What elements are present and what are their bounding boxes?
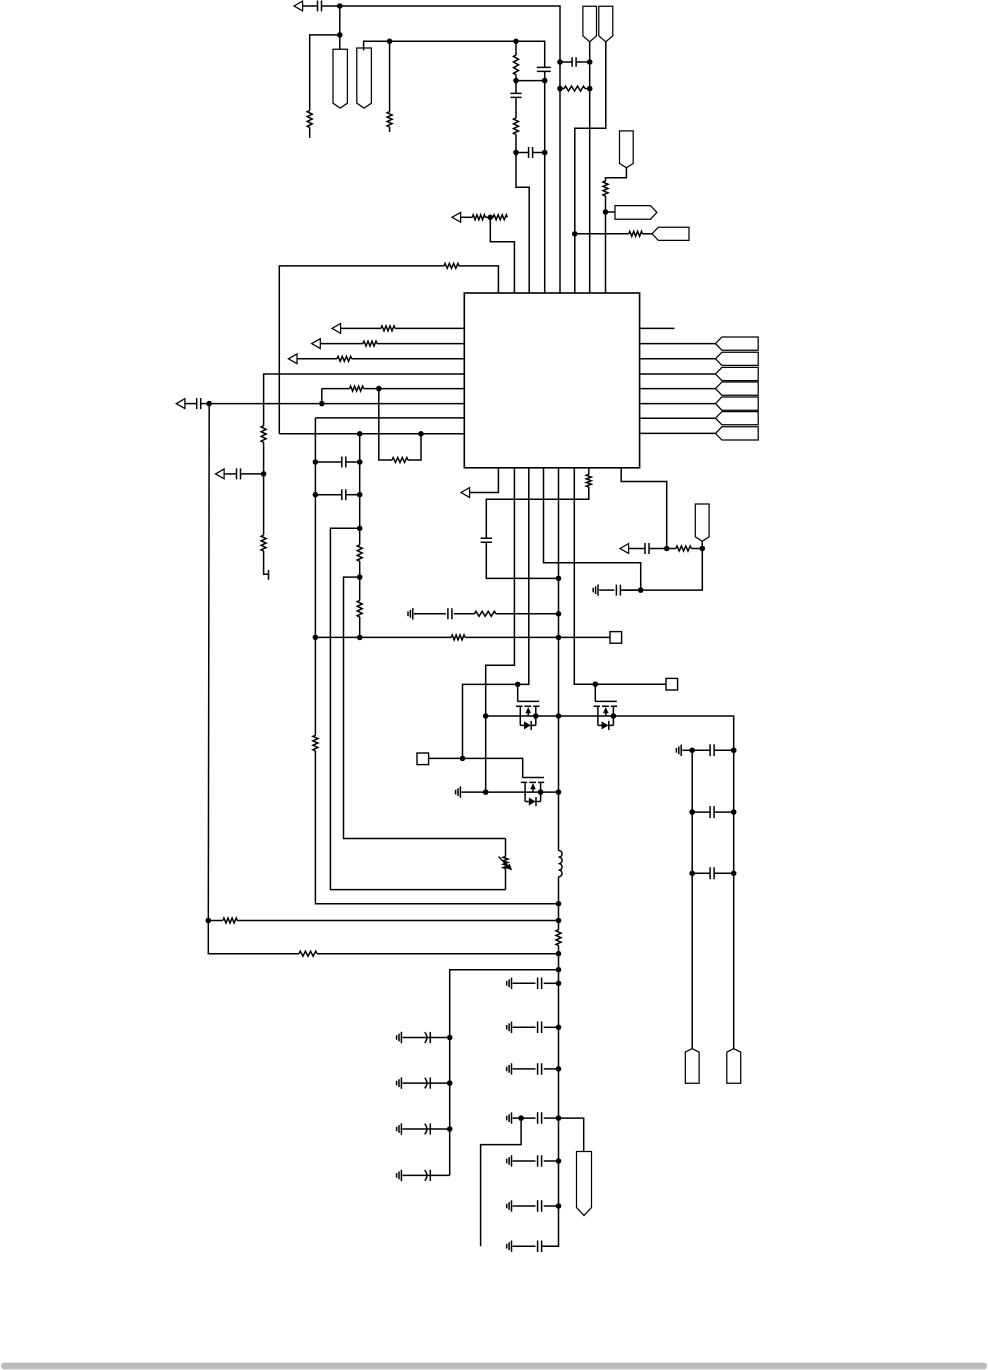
wire [599, 589, 614, 591]
wire [606, 168, 627, 181]
wire [516, 80, 545, 82]
junction [447, 1126, 453, 1132]
capacitor C14 [710, 744, 714, 756]
wire [339, 6, 341, 49]
wire [496, 613, 559, 615]
wire [544, 468, 641, 590]
wire [465, 636, 610, 638]
wire [486, 542, 558, 578]
net tag N4 [599, 6, 613, 42]
junction [556, 901, 562, 907]
net-input arrow P3 [312, 339, 321, 349]
wire [515, 97, 517, 118]
wire [309, 128, 311, 138]
transistor Q3 [521, 778, 544, 807]
wire [575, 42, 606, 293]
resistor R21 [556, 930, 561, 946]
junction [313, 459, 319, 465]
wire [330, 528, 505, 889]
wire [389, 127, 391, 132]
wire [430, 1082, 449, 1084]
resistor R13 [350, 386, 364, 391]
wire [516, 135, 529, 294]
wire [315, 636, 451, 638]
resistor R1 [307, 111, 312, 128]
wire [640, 343, 716, 345]
wire [297, 358, 337, 360]
wire [544, 1245, 559, 1247]
wire [629, 548, 646, 550]
wire [544, 72, 546, 81]
resistor R16 [444, 263, 459, 268]
wire [621, 549, 703, 591]
junction [447, 1080, 453, 1086]
wire [237, 920, 558, 922]
resistor R2 [387, 112, 392, 127]
resistor R25 [299, 951, 317, 956]
wire [314, 637, 316, 735]
junction [587, 86, 593, 92]
wire [691, 750, 693, 1048]
wire [640, 432, 716, 434]
net tag N1 [333, 49, 347, 108]
ground [507, 978, 512, 989]
capacitor C8 [342, 457, 346, 468]
resistor R4 [514, 118, 519, 135]
wire [344, 577, 506, 838]
net tag N8 [695, 504, 709, 541]
resistor R6 [629, 231, 643, 236]
resistor R12 [261, 535, 266, 551]
junction [731, 748, 737, 754]
wire [605, 196, 607, 293]
net tag NR5 [716, 397, 759, 410]
wire [606, 211, 616, 213]
wire [429, 758, 523, 777]
wire [389, 41, 391, 111]
resistor R19 [451, 635, 465, 640]
wire [390, 40, 516, 42]
capacitor C15 [710, 806, 714, 818]
capacitor C9 [342, 489, 346, 500]
junction [206, 918, 212, 924]
wire [364, 388, 465, 390]
wire [403, 1082, 431, 1084]
junction [556, 789, 562, 795]
wire [682, 749, 692, 751]
wire [490, 216, 493, 218]
wire [588, 468, 590, 475]
junction [593, 681, 599, 687]
junction [542, 150, 548, 156]
capacitor C10 [448, 608, 452, 619]
wire [513, 1117, 536, 1119]
junction [731, 748, 737, 754]
junction [447, 1035, 453, 1041]
wire [544, 81, 546, 293]
net-input arrow P5 [216, 469, 225, 479]
IC U1 [464, 293, 639, 468]
wire [559, 1118, 584, 1151]
junction [689, 871, 695, 877]
wire [640, 327, 675, 329]
junction [689, 748, 695, 754]
wire [359, 561, 361, 600]
wire [544, 1160, 559, 1162]
capacitor C24 [538, 1112, 542, 1124]
wire [621, 468, 667, 549]
resistor R18 [357, 600, 362, 617]
wire [322, 5, 340, 7]
net tag NR1 [716, 337, 759, 350]
wire [459, 266, 498, 293]
resistor R22 [586, 474, 591, 487]
wire [516, 152, 529, 154]
junction [731, 809, 737, 815]
wire [359, 617, 361, 638]
resistor R24 [223, 918, 237, 923]
capacitor C3 [529, 147, 533, 158]
junction [357, 459, 363, 465]
wire [321, 389, 323, 404]
ground [507, 1022, 512, 1033]
wire [486, 487, 589, 538]
junction [483, 713, 489, 719]
wire [585, 88, 590, 90]
transistor Q2 [594, 701, 617, 730]
wire [574, 468, 666, 684]
junction [313, 635, 319, 641]
capacitor C19 [425, 1123, 431, 1134]
wire [533, 152, 545, 154]
wire [692, 872, 710, 874]
wire [341, 327, 381, 329]
junction [587, 59, 593, 65]
wire [185, 403, 197, 405]
capacitor C21 [538, 978, 542, 990]
junction [357, 526, 363, 532]
wire [461, 216, 473, 218]
junction [700, 546, 706, 552]
net-input arrow P8 [620, 544, 629, 554]
wire [359, 434, 361, 545]
junction [556, 576, 562, 582]
wire [379, 389, 392, 460]
wire [714, 749, 734, 751]
ground [507, 1063, 512, 1074]
test point TP2 [666, 678, 678, 690]
wire [513, 1068, 536, 1070]
wire [430, 1174, 449, 1176]
resistor R23 [676, 546, 691, 551]
wire [505, 869, 507, 890]
wire [544, 1026, 559, 1028]
capacitor C2 [510, 93, 521, 97]
wire [643, 233, 653, 235]
junction [556, 1203, 562, 1209]
net tag NR6 [716, 412, 759, 425]
capacitor C5 [572, 57, 576, 67]
resistor R5 [564, 86, 585, 91]
ground [593, 584, 598, 595]
wire [263, 442, 265, 474]
net tag N10 [727, 1049, 741, 1084]
junction [556, 1025, 562, 1031]
wire [513, 982, 536, 984]
wire [208, 920, 223, 922]
wire [303, 5, 318, 7]
junction [206, 401, 212, 407]
ground [456, 786, 461, 797]
test point TP3 [417, 753, 429, 765]
ground [397, 1170, 402, 1181]
wire [208, 404, 299, 954]
net tag N9 [685, 1049, 699, 1084]
net-input arrow P1 [294, 1, 303, 11]
wire [544, 1117, 559, 1119]
resistor R10 [337, 356, 352, 361]
wire [470, 468, 499, 493]
wire [279, 433, 464, 435]
net tag N2 [357, 48, 372, 108]
ground [507, 1200, 512, 1211]
wire [560, 61, 572, 63]
junction [513, 39, 519, 45]
ground [676, 745, 681, 756]
net tag N7 [615, 206, 657, 220]
wire [346, 494, 360, 496]
capacitor C22 [538, 1022, 542, 1034]
wire [315, 417, 464, 419]
ground [397, 1077, 402, 1088]
net-input arrow P9 [452, 212, 461, 222]
wire [544, 982, 559, 984]
wire [224, 473, 236, 475]
junction [533, 713, 539, 719]
wire [310, 35, 340, 111]
resistor R26 [472, 215, 485, 220]
wire [516, 41, 545, 67]
resistor R27 [493, 215, 507, 220]
wire [575, 233, 629, 235]
trimmer resistor RV1 [503, 857, 508, 869]
capacitor C11 [481, 538, 492, 542]
net-output arrow P7 [461, 488, 470, 498]
junction [488, 215, 494, 221]
junction [542, 78, 548, 84]
wire [640, 403, 716, 405]
wire [515, 75, 517, 94]
wire [315, 494, 341, 496]
wire [395, 327, 464, 329]
ground [507, 1155, 512, 1166]
net-input arrow P4 [288, 354, 297, 364]
ground [408, 608, 413, 619]
net tag N6 [620, 131, 634, 168]
wire [640, 358, 716, 360]
wire [481, 1118, 521, 1246]
junction [387, 39, 393, 45]
resistor R8 [381, 326, 395, 331]
net tag NR3 [716, 367, 759, 380]
resistor R3 [514, 55, 519, 75]
resistor R11 [261, 426, 266, 443]
wire [640, 373, 716, 375]
wire [714, 811, 734, 813]
capacitor C7 [197, 398, 201, 409]
resistor R7 [603, 181, 608, 196]
inductor L1 [559, 851, 563, 877]
junction [376, 386, 382, 392]
capacitor C20 [425, 1170, 431, 1181]
wire [463, 468, 529, 759]
capacitor C12 [645, 543, 649, 554]
net tag N3 [583, 6, 597, 42]
wire [640, 417, 716, 419]
wire [314, 418, 316, 462]
junction [513, 78, 519, 84]
wire [314, 495, 316, 638]
wire [485, 216, 490, 218]
capacitor C27 [538, 1241, 542, 1253]
junction [556, 1115, 562, 1121]
junction [689, 809, 695, 815]
wire [513, 1026, 536, 1028]
wire [403, 1037, 431, 1039]
wire [505, 839, 507, 857]
wire [733, 750, 735, 1048]
wire [322, 388, 350, 390]
junction [557, 59, 563, 65]
wire [515, 41, 517, 55]
wire [594, 684, 596, 701]
junction [357, 574, 363, 580]
wire [490, 217, 514, 293]
junction [556, 981, 562, 987]
footer bar [1, 1363, 987, 1370]
net-input arrow P2 [332, 324, 341, 334]
junction [556, 611, 562, 617]
wire [377, 343, 464, 345]
wire [315, 461, 341, 463]
wire [558, 468, 560, 851]
wire [314, 462, 316, 495]
capacitor C6 [237, 468, 241, 479]
resistor R15 [313, 735, 318, 751]
capacitor C17 [425, 1032, 431, 1043]
wire [622, 589, 640, 591]
wire [513, 1205, 536, 1207]
wire [454, 613, 475, 615]
capacitor C23 [538, 1063, 542, 1075]
wire [315, 751, 558, 904]
junction [337, 3, 343, 9]
junction [418, 431, 424, 437]
wire [701, 541, 703, 548]
wire [320, 343, 363, 345]
wire [201, 403, 210, 405]
net tag NR2 [716, 352, 759, 365]
wire [486, 716, 734, 750]
capacitor C25 [538, 1155, 542, 1167]
wire [589, 42, 591, 293]
junction [313, 492, 319, 498]
junction [538, 789, 544, 795]
wire [542, 946, 558, 1247]
wire [340, 6, 560, 293]
wire [544, 1205, 559, 1207]
wire [640, 388, 716, 390]
junction [556, 967, 562, 973]
resistor R17 [357, 545, 362, 561]
ground [397, 1123, 402, 1134]
junction [483, 789, 489, 795]
wire [513, 1160, 536, 1162]
capacitor C1 [318, 1, 322, 12]
junction [638, 587, 644, 593]
wire [430, 1037, 449, 1039]
junction [261, 471, 267, 477]
capacitor C18 [425, 1078, 431, 1089]
test point TP1 [610, 632, 622, 644]
junction [460, 756, 466, 762]
wire [264, 374, 465, 426]
junction [513, 150, 519, 156]
junction [556, 635, 562, 641]
net tag NR4 [716, 382, 759, 395]
wire [692, 811, 710, 813]
wire [430, 1128, 449, 1130]
junction [572, 231, 578, 237]
junction [337, 32, 343, 38]
trimmer arrow [499, 857, 513, 871]
junction [319, 401, 325, 407]
wire [450, 970, 559, 1176]
capacitor C16 [710, 867, 714, 879]
junction [556, 1158, 562, 1164]
ground [397, 1032, 402, 1043]
wire [364, 41, 390, 50]
wire [544, 1068, 559, 1070]
wire [403, 1128, 431, 1130]
junction [357, 635, 363, 641]
wire [317, 953, 559, 955]
resistor R20 [474, 611, 496, 616]
wire [517, 684, 519, 701]
wire [560, 88, 564, 90]
capacitor C13 [616, 585, 620, 596]
junction [518, 1115, 524, 1121]
junction [664, 546, 670, 552]
junction [557, 86, 563, 92]
net-input arrow P6 [176, 399, 185, 409]
junction [556, 951, 562, 957]
wire [714, 872, 734, 874]
net tag NR7 [716, 427, 759, 440]
capacitor C26 [538, 1200, 542, 1212]
junction [357, 492, 363, 498]
wire [692, 749, 710, 751]
terminal stub [268, 570, 270, 580]
transistor Q1 [516, 701, 539, 730]
wire [408, 434, 421, 460]
wire [403, 1174, 431, 1176]
wire [209, 403, 464, 405]
net tag N11 [577, 1152, 592, 1216]
junction [556, 918, 562, 924]
wire [462, 791, 559, 793]
wire [414, 613, 446, 615]
